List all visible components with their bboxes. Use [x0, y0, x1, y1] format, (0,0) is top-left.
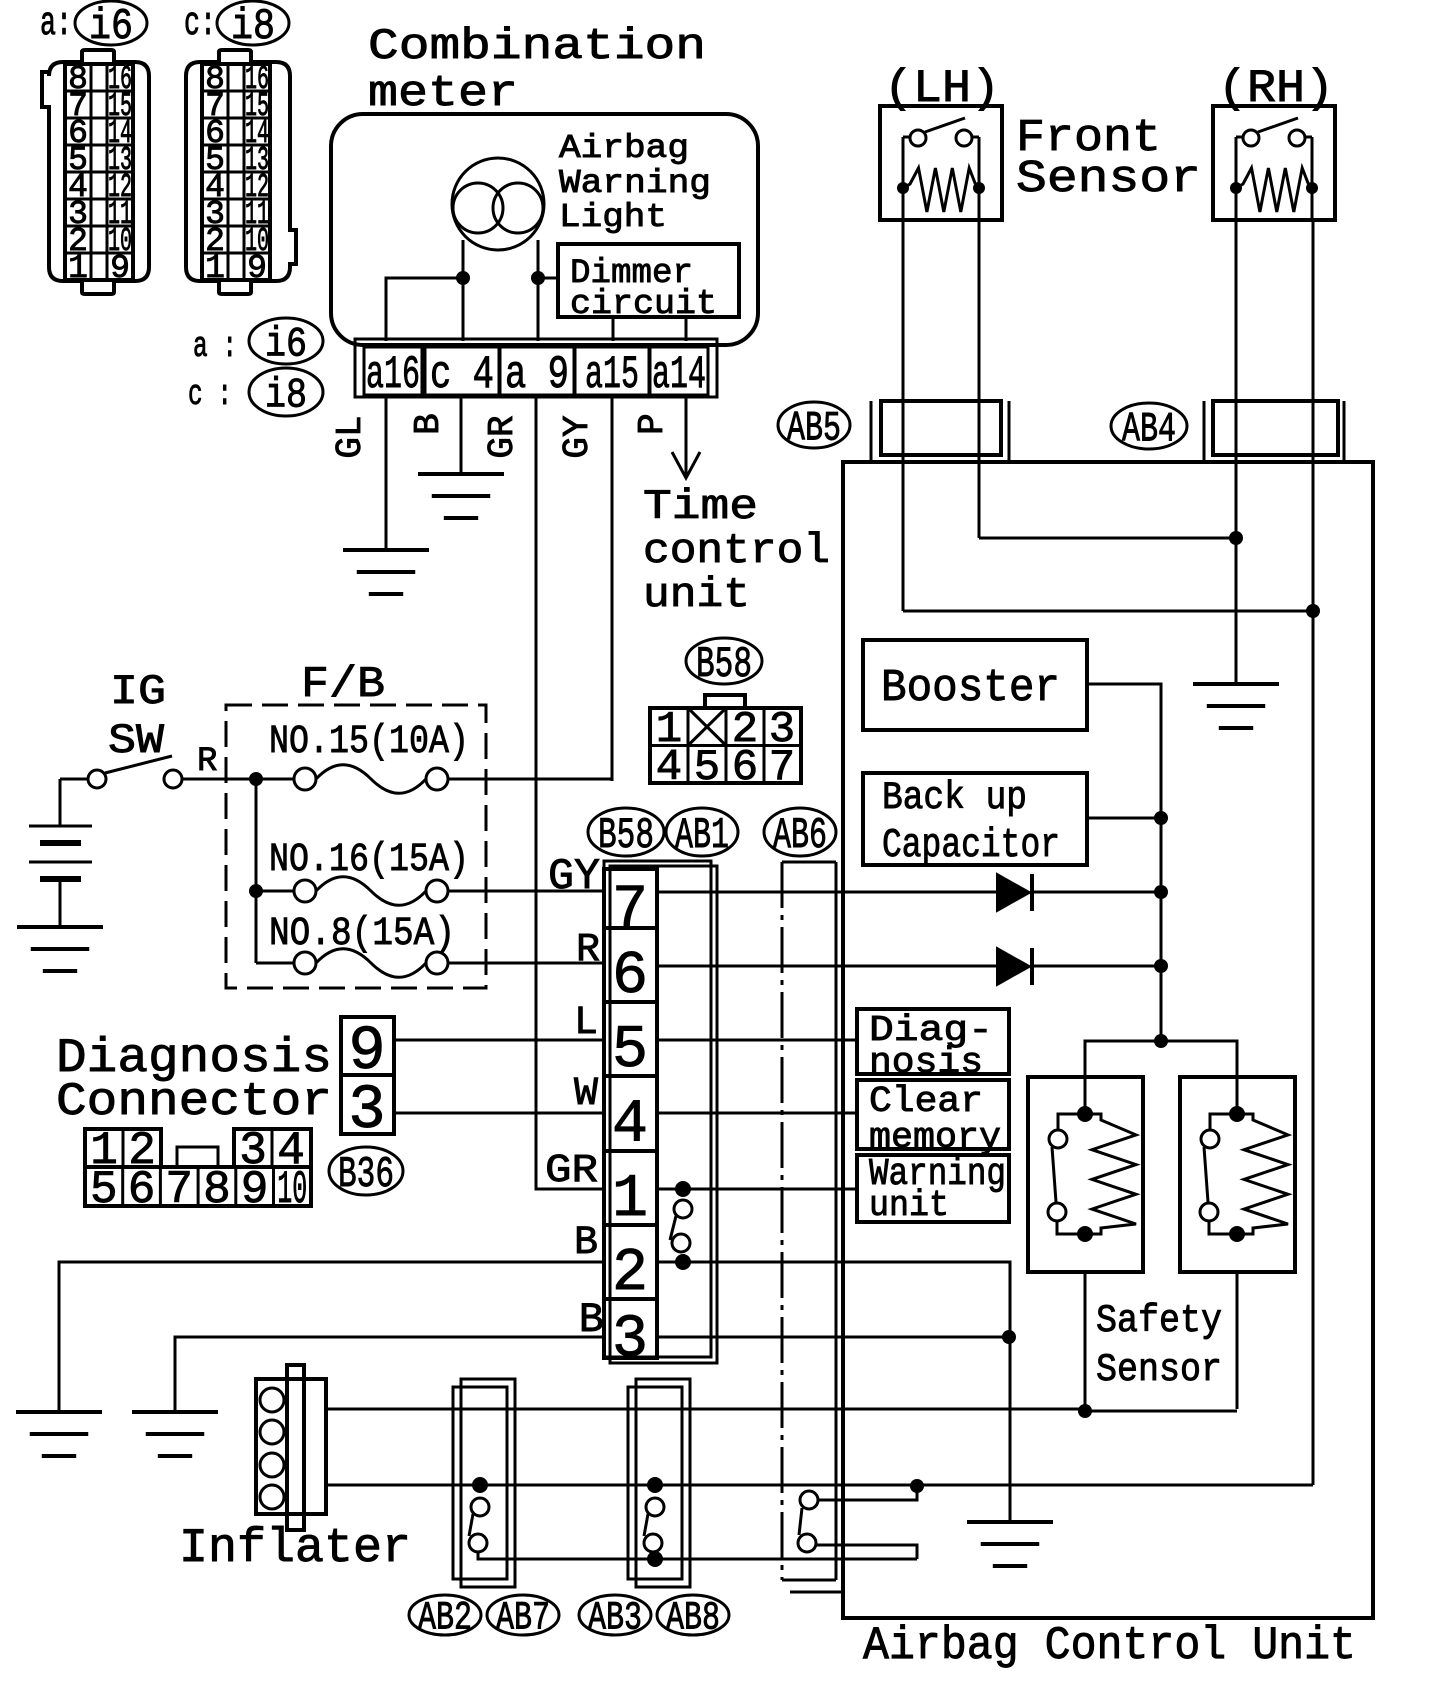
AB6 oval label — [764, 808, 836, 856]
meter connector outer box — [355, 339, 717, 397]
battery — [60, 778, 87, 781]
B58 connector tab — [705, 695, 745, 708]
wire branch to a16 — [386, 278, 463, 341]
svg-text:i8: i8 — [265, 371, 307, 419]
B58 oval label strip — [588, 808, 664, 856]
wire booster to bus — [1087, 684, 1161, 1041]
svg-text:IG: IG — [110, 668, 166, 716]
AB2 oval label — [409, 1595, 481, 1635]
svg-text:NO.16(15A): NO.16(15A) — [269, 838, 469, 883]
svg-text:NO.15(10A): NO.15(10A) — [269, 720, 469, 765]
wire inflater squib return — [326, 1484, 1313, 1487]
svg-text:AB4: AB4 — [1122, 405, 1176, 453]
wire to fuse No.8 — [256, 962, 294, 965]
wire pin3 B into ACU — [657, 1336, 1009, 1339]
fuse No.8 — [294, 952, 316, 974]
ground B — [418, 472, 504, 476]
svg-text:1: 1 — [68, 250, 88, 287]
svg-text:F/B: F/B — [301, 660, 385, 710]
safety sensor relay left — [1028, 1077, 1143, 1272]
svg-text:B58: B58 — [598, 811, 654, 861]
svg-text:a14: a14 — [652, 349, 706, 401]
junction dot fuse feed 2 — [249, 884, 263, 898]
svg-text:Clear: Clear — [869, 1081, 983, 1122]
junction dot diode1 — [1154, 885, 1168, 899]
svg-text:c:: c: — [184, 2, 216, 47]
svg-text:Warning: Warning — [559, 165, 711, 202]
B58 crossed cell — [688, 708, 726, 746]
svg-text:control: control — [643, 527, 830, 575]
AB3 shorting bar — [647, 1477, 663, 1493]
wire LH right down — [978, 220, 981, 538]
svg-text:GY: GY — [557, 415, 598, 458]
svg-text:circuit: circuit — [570, 286, 717, 324]
wire pin7 GY to diode1 — [657, 891, 997, 894]
svg-text:AB6: AB6 — [773, 811, 827, 861]
wire GY a15 down to fuse No.15 — [611, 397, 614, 781]
wire RH right down to squib line — [1312, 611, 1315, 1485]
AB8 oval label — [657, 1595, 729, 1635]
Diag-nosis box — [857, 1009, 1009, 1074]
diode pin7 — [997, 874, 1030, 911]
wire P a14 with arrow to time control unit — [685, 397, 688, 476]
connector AB2 box — [453, 1387, 507, 1579]
inflater connector — [256, 1379, 326, 1514]
svg-text:c 4: c 4 — [430, 349, 494, 401]
svg-text:6: 6 — [612, 943, 648, 1011]
svg-text:memory: memory — [869, 1117, 1001, 1158]
svg-text:nosis: nosis — [869, 1042, 983, 1083]
fuse No.15 — [294, 768, 316, 790]
ground battery — [17, 925, 103, 929]
wire to fuse No.16 — [256, 890, 294, 893]
diode pin6 — [997, 948, 1030, 985]
svg-text:B58: B58 — [696, 640, 752, 690]
B58 oval label top — [686, 638, 762, 684]
connector AB4 box — [1213, 401, 1338, 455]
AB1 oval label strip — [666, 808, 738, 856]
svg-text:a 9: a 9 — [505, 349, 569, 401]
svg-text:3: 3 — [612, 1307, 648, 1375]
wire fuse No.16 to pin7 GY — [448, 890, 604, 893]
svg-text:GR: GR — [482, 415, 523, 458]
junction dot capacitor — [1154, 811, 1168, 825]
junction dot RH right — [1306, 604, 1320, 618]
svg-text:3: 3 — [348, 1075, 385, 1146]
AB7 oval label — [487, 1595, 559, 1635]
svg-text:Back up: Back up — [882, 776, 1027, 820]
svg-text:i6: i6 — [265, 320, 307, 368]
airbag control unit box — [843, 462, 1373, 1618]
diagnosis connector pin grid — [85, 1129, 161, 1167]
svg-text:Safety: Safety — [1096, 1299, 1222, 1343]
wire fuse bus down — [255, 779, 258, 963]
svg-text:AB3: AB3 — [588, 1597, 642, 1642]
wire GL a16 to ground — [385, 397, 388, 550]
connector AB1 outer box — [604, 861, 711, 1357]
wire RH right down — [1312, 220, 1315, 611]
connector i8 pin grid — [202, 64, 270, 280]
wire dimmer to a15 — [612, 317, 615, 341]
B58 connector grid — [650, 708, 801, 783]
wire pin2 B to ground — [59, 1262, 604, 1412]
junction dot bus to safety sensors — [1154, 1034, 1168, 1048]
combination meter box — [331, 114, 758, 345]
wire LH right to RH left junction — [979, 537, 1236, 540]
connector i8 oval label — [217, 1, 289, 45]
svg-text:AB5: AB5 — [787, 404, 841, 452]
connector i8 shell — [186, 50, 296, 294]
wire left relay down — [1084, 1272, 1087, 1411]
junction dot fuse feed 1 — [249, 772, 263, 786]
svg-text:a:: a: — [40, 2, 72, 47]
svg-text:Capacitor: Capacitor — [882, 823, 1060, 869]
svg-text:9: 9 — [110, 250, 130, 287]
ground front sensors — [1193, 682, 1279, 686]
diagnosis connector box 3 — [341, 1075, 394, 1134]
svg-text:9: 9 — [247, 250, 267, 287]
junction dot pin3 ground line — [1002, 1330, 1016, 1344]
svg-text:Sensor: Sensor — [1016, 154, 1201, 205]
front sensor LH — [880, 106, 1002, 220]
wire fuse No.15 to GY vertical — [448, 778, 612, 781]
svg-text:Airbag: Airbag — [559, 130, 689, 167]
svg-text:AB8: AB8 — [666, 1597, 720, 1642]
fuse box F/B dashed — [226, 705, 486, 988]
svg-text:8: 8 — [203, 1164, 231, 1216]
wire pin4 W to clear memory box — [657, 1112, 857, 1115]
wire LH left to RH right junction — [903, 610, 1313, 613]
wire fuse No.8 to pin6 R — [448, 962, 604, 965]
connector B58 pin strip — [604, 869, 657, 1358]
wire pin1 GR to warning unit box — [657, 1188, 857, 1191]
wire right relay down — [1236, 1272, 1239, 1409]
Booster box — [863, 640, 1087, 730]
svg-text:unit: unit — [643, 571, 750, 619]
svg-text:5: 5 — [90, 1164, 118, 1216]
wire pin6 R to diode2 — [657, 965, 997, 968]
meter connector cells — [364, 347, 422, 395]
connector AB5 box — [881, 401, 1001, 455]
wire squib low — [507, 1558, 917, 1561]
svg-text:6: 6 — [732, 743, 758, 793]
AB6 shorting bar — [800, 1491, 818, 1509]
svg-text:AB2: AB2 — [418, 1597, 472, 1642]
svg-text:Sensor: Sensor — [1096, 1348, 1222, 1392]
svg-text:B: B — [574, 1221, 598, 1266]
wire diagnosis 3 to pin4 W — [394, 1112, 604, 1115]
svg-text:4: 4 — [612, 1092, 648, 1160]
svg-text:a16: a16 — [366, 349, 420, 401]
connector i6 oval label — [75, 1, 147, 45]
fuse No.16 — [294, 880, 316, 902]
wire dimmer to a14 — [685, 317, 688, 341]
svg-text:GL: GL — [330, 415, 371, 458]
svg-text:AB1: AB1 — [675, 811, 729, 861]
svg-text:2: 2 — [612, 1240, 648, 1308]
wire bus to left relay — [1085, 1041, 1161, 1114]
wire B c4 to ground — [460, 397, 463, 474]
svg-text:GY: GY — [548, 852, 600, 902]
ground GL — [343, 548, 429, 552]
svg-text:P: P — [632, 413, 673, 435]
junction dot lamp right — [531, 271, 545, 285]
junction dot diode2 — [1154, 959, 1168, 973]
svg-text:B: B — [408, 413, 449, 435]
Dimmer circuit box — [558, 244, 739, 317]
svg-text:AB7: AB7 — [496, 1597, 550, 1642]
junction dot sensors ground — [1229, 531, 1243, 545]
svg-text:1: 1 — [612, 1166, 648, 1234]
svg-text:NO.8(15A): NO.8(15A) — [269, 912, 455, 957]
svg-text:W: W — [574, 1072, 598, 1117]
junction dot lamp left — [456, 271, 470, 285]
connector AB6 box — [781, 862, 784, 1580]
svg-text:meter: meter — [368, 69, 518, 119]
svg-text:i6: i6 — [89, 2, 133, 52]
strip shorting bar pin1-pin2 — [675, 1181, 691, 1197]
svg-text:5: 5 — [694, 743, 720, 793]
connector i6 shell — [42, 50, 149, 294]
svg-text:GR: GR — [545, 1149, 598, 1194]
svg-text:7: 7 — [769, 743, 795, 793]
wire capacitor to bus — [1087, 817, 1161, 820]
svg-text:6: 6 — [128, 1164, 156, 1216]
wire switch to fuse box — [182, 778, 294, 781]
Clear memory box — [857, 1080, 1009, 1149]
connector AB3 box — [628, 1387, 682, 1579]
front sensor RH — [1213, 106, 1335, 220]
connector i6 pin grid — [65, 64, 133, 280]
wire lamp left leg to connector a16 branch — [462, 240, 465, 341]
svg-text:Airbag Control Unit: Airbag Control Unit — [863, 1620, 1356, 1672]
wire RH left down — [1235, 220, 1238, 684]
AB5 oval label — [778, 402, 850, 448]
wire dot to dimmer circuit — [538, 277, 558, 280]
svg-text:7: 7 — [612, 877, 648, 945]
svg-text:10: 10 — [277, 1164, 307, 1216]
svg-text:7: 7 — [165, 1164, 193, 1216]
svg-text:1: 1 — [205, 250, 225, 287]
svg-text:B36: B36 — [338, 1150, 394, 1200]
airbag warning lamp — [452, 158, 544, 250]
svg-text:Booster: Booster — [881, 663, 1060, 714]
svg-text:Connector: Connector — [56, 1076, 332, 1128]
AB3 oval label — [579, 1595, 651, 1635]
svg-text:a :: a : — [193, 326, 237, 367]
ground ACU internal — [967, 1520, 1053, 1524]
Warning unit box — [857, 1155, 1009, 1222]
Back up Capacitor box — [863, 773, 1087, 865]
svg-text:c :: c : — [188, 374, 232, 415]
diagnosis connector box 9 — [341, 1017, 394, 1075]
svg-text:R: R — [197, 743, 217, 781]
svg-text:Combination: Combination — [368, 22, 706, 72]
svg-text:unit: unit — [869, 1185, 949, 1226]
svg-text:5: 5 — [612, 1017, 648, 1085]
wire pin3 B to ground — [175, 1337, 604, 1412]
wire inflater squib high — [326, 1408, 1085, 1411]
AB2 shorting bar — [472, 1477, 488, 1493]
wire bus to right relay — [1161, 1041, 1237, 1114]
wire pin5 L to diagnosis box — [657, 1039, 857, 1042]
svg-text:a15: a15 — [585, 349, 639, 401]
svg-text:i8: i8 — [231, 2, 275, 52]
wire squib line to right relay — [1085, 1410, 1237, 1413]
B36 oval label — [329, 1147, 403, 1195]
ground pin3 — [132, 1410, 218, 1414]
svg-text:4: 4 — [656, 743, 682, 793]
wire diagnosis 9 to pin5 L — [394, 1039, 604, 1042]
ignition switch — [88, 770, 106, 788]
AB4 oval label — [1111, 403, 1187, 449]
ground pin2 — [16, 1410, 102, 1414]
safety sensor relay right — [1180, 1077, 1295, 1272]
svg-text:Time: Time — [643, 483, 758, 531]
wire LH left down to AB5 — [902, 220, 905, 611]
wire pin2 B into ACU — [657, 1262, 1010, 1522]
wire lamp right leg to a9 — [537, 240, 540, 341]
svg-text:SW: SW — [108, 717, 165, 765]
svg-text:Light: Light — [559, 199, 667, 236]
junction dot AB6 shorting bar — [910, 1479, 924, 1493]
junction dot left relay squib line — [1078, 1404, 1092, 1418]
wire GR a9 down to pin1 GR — [536, 397, 604, 1189]
svg-text:R: R — [576, 928, 600, 973]
svg-text:9: 9 — [241, 1164, 269, 1216]
